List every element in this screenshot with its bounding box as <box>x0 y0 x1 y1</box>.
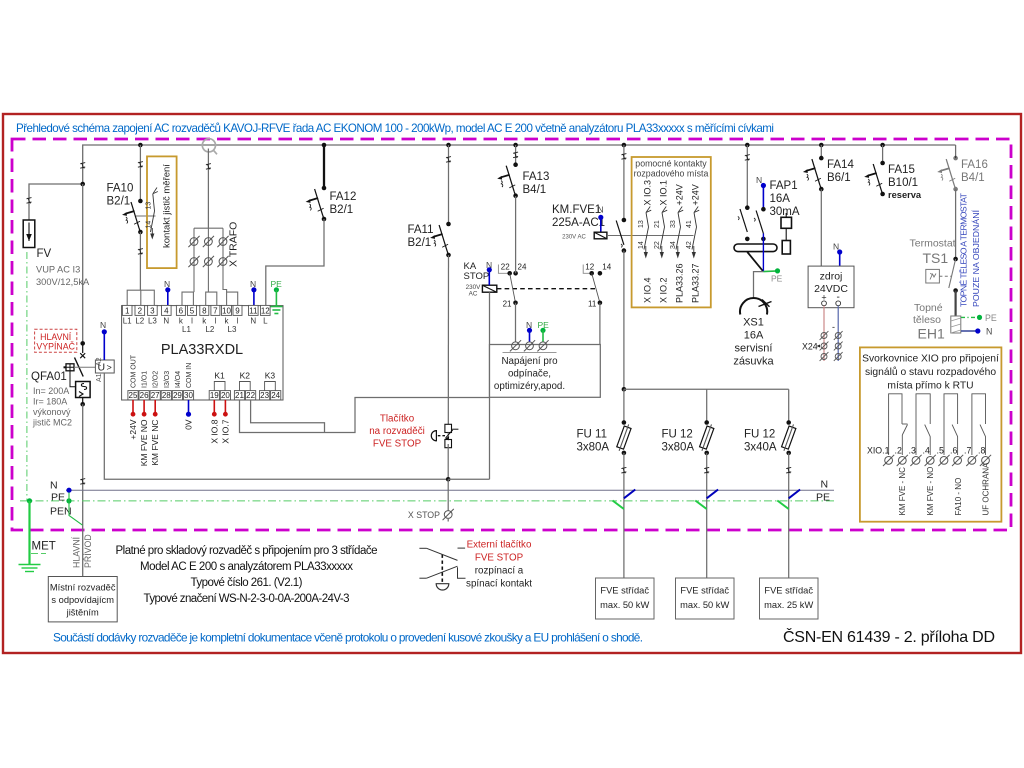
svg-text:KM FVE NC: KM FVE NC <box>150 420 160 466</box>
svg-text:In= 200A: In= 200A <box>33 386 69 396</box>
box Mistni rozvadec <box>48 577 117 622</box>
svg-text:N: N <box>598 205 604 215</box>
svg-text:N: N <box>821 479 829 491</box>
overvoltage release U> <box>95 357 114 382</box>
blue stub 30 <box>188 400 190 414</box>
wire main vertical lower part <box>82 404 84 576</box>
breaker FA14 <box>803 156 824 192</box>
CT terminals row 1 <box>188 236 199 247</box>
FU11 drop <box>617 389 631 578</box>
svg-text:servisní: servisní <box>735 343 773 355</box>
svg-text:13: 13 <box>146 202 153 210</box>
breaker FA10 <box>122 199 143 235</box>
svg-text:X IO.1: X IO.1 <box>659 180 669 206</box>
distribution bus <box>624 388 789 390</box>
svg-text:Svorkovnice XIO pro připojení: Svorkovnice XIO pro připojení <box>862 354 999 365</box>
svg-text:27: 27 <box>151 391 160 400</box>
svg-text:N: N <box>100 320 106 330</box>
XIO contact pair 4 (NO) <box>972 394 986 455</box>
svg-text:42: 42 <box>686 241 693 249</box>
main contact KM <box>616 218 626 253</box>
PE stub at socket <box>763 268 782 283</box>
svg-text:rozpínací a: rozpínací a <box>475 566 524 577</box>
svg-text:POUZE NA OBJEDNÁNÍ: POUZE NA OBJEDNÁNÍ <box>971 209 981 307</box>
svg-text:K1: K1 <box>214 371 225 381</box>
svg-text:PLA33RXDL: PLA33RXDL <box>161 342 243 358</box>
svg-text:QFA01: QFA01 <box>31 371 67 383</box>
svg-text:s odpovídajícm: s odpovídajícm <box>51 595 114 605</box>
svg-text:HLAVNÍ: HLAVNÍ <box>72 536 82 568</box>
svg-text:TOPNÉ TĚLESO A TERMOSTAT: TOPNÉ TĚLESO A TERMOSTAT <box>959 192 969 307</box>
mech dashed link KA <box>497 288 596 290</box>
svg-text:výkonový: výkonový <box>33 407 71 417</box>
red stubs 19 20 <box>214 400 225 414</box>
svg-text:jistič MC2: jistič MC2 <box>32 417 72 427</box>
N terminal 11 stub <box>250 279 257 305</box>
aux contact KA 22/24 <box>498 262 527 308</box>
wire main vertical <box>82 184 84 343</box>
push button on panel <box>431 424 458 447</box>
svg-text:FU 12: FU 12 <box>662 429 693 441</box>
svg-text:X TRAFO: X TRAFO <box>228 222 240 267</box>
svg-text:A2: A2 <box>96 357 103 366</box>
svg-text:PE: PE <box>51 492 65 504</box>
node FA12 bus tap <box>322 143 327 148</box>
svg-text:Platné pro skladový rozvaděč s: Platné pro skladový rozvaděč s připojení… <box>116 545 378 557</box>
outer red border <box>3 114 1021 653</box>
svg-text:N: N <box>986 327 992 337</box>
svg-text:Typové číslo 261. (V2.1): Typové číslo 261. (V2.1) <box>191 577 303 589</box>
relay coil KA <box>482 285 496 292</box>
CT line 3 <box>223 228 227 292</box>
breaker FA11 <box>430 222 451 258</box>
gold box pomocne kontakty <box>632 157 711 307</box>
svg-text:COM OUT: COM OUT <box>131 354 138 388</box>
bottom terminal squares <box>128 391 281 400</box>
bottom terminal rotated labels <box>131 354 194 388</box>
node FA15 bus tap <box>880 143 885 148</box>
bracket feed L1 L2 L3 <box>127 290 154 305</box>
svg-text:23: 23 <box>260 391 269 400</box>
svg-text:EH1: EH1 <box>918 326 945 342</box>
svg-text:max. 50 kW: max. 50 kW <box>600 600 649 610</box>
svg-text:jištěním: jištěním <box>66 608 99 618</box>
svg-text:B4/1: B4/1 <box>961 172 985 184</box>
wire FA14 upper <box>820 145 822 158</box>
svg-text:PE: PE <box>816 492 830 504</box>
svg-text:N: N <box>163 317 169 326</box>
top terminal numbers <box>125 306 270 315</box>
bottom terminal numbers <box>129 391 281 400</box>
XIO terminal labels <box>867 446 985 456</box>
N feed to U> <box>100 320 107 360</box>
svg-text:pomocné kontakty: pomocné kontakty <box>635 159 707 169</box>
PE bus green dash-dot <box>20 500 834 502</box>
svg-text:signálů o stavu rozpadového: signálů o stavu rozpadového <box>865 366 996 378</box>
gold box kontakt jistic mereni <box>147 156 177 268</box>
label HLAVNI VYPINAC box <box>35 329 77 352</box>
svg-text:FVE střídač: FVE střídač <box>600 586 649 596</box>
PE terminal stub + earth <box>270 279 282 314</box>
bracket CT pair 2 <box>206 292 217 305</box>
svg-text:I4/O4: I4/O4 <box>175 371 182 388</box>
svg-text:X IO.3: X IO.3 <box>643 180 653 206</box>
XIO rotated signal labels <box>898 462 991 516</box>
svg-text:3x40A: 3x40A <box>744 442 777 454</box>
wire KM aux common down <box>599 303 601 345</box>
svg-text:22: 22 <box>246 391 255 400</box>
svg-text:FAP1: FAP1 <box>770 180 798 192</box>
svg-text:34: 34 <box>670 241 677 249</box>
node distribution <box>622 387 627 392</box>
svg-text:-: - <box>832 322 835 332</box>
svg-text:FA16: FA16 <box>961 159 988 171</box>
svg-text:Přehledové schéma zapojení AC: Přehledové schéma zapojení AC rozvaděčů … <box>16 122 774 135</box>
inverter box 1 <box>596 578 655 619</box>
svg-text:FA14: FA14 <box>827 159 854 171</box>
svg-text:I2/O2: I2/O2 <box>153 371 160 388</box>
svg-text:21: 21 <box>235 391 244 400</box>
svg-text:14: 14 <box>602 262 611 271</box>
breaker FA16 <box>937 156 958 192</box>
RCD diagonal link <box>747 252 763 272</box>
breaker FA12 <box>306 186 327 222</box>
top terminal squares <box>122 305 270 315</box>
break mark above N bus <box>80 479 85 485</box>
svg-text:Typové značení WS-N-2-3-0-0A-2: Typové značení WS-N-2-3-0-0A-200A-24V-3 <box>144 593 350 605</box>
svg-text:B4/1: B4/1 <box>523 184 547 196</box>
svg-text:14: 14 <box>638 241 645 249</box>
wire FA11 down to stop button <box>447 255 449 425</box>
svg-text:0V: 0V <box>184 419 194 430</box>
svg-text:3x80A: 3x80A <box>577 442 610 454</box>
svg-text:PE: PE <box>985 313 997 323</box>
wire FA13 upper <box>515 145 517 165</box>
wire bus corner to FA16 <box>955 145 957 158</box>
dashed link TS1 <box>939 275 951 277</box>
svg-text:12: 12 <box>585 262 594 271</box>
wire FA14 down to zdroj <box>820 189 822 266</box>
N terminal 4 stub <box>164 279 170 305</box>
N stub EH1 <box>961 327 992 337</box>
grid circle symbol <box>202 139 215 152</box>
svg-text:I1/O1: I1/O1 <box>142 371 149 388</box>
svg-text:41: 41 <box>686 220 693 228</box>
svg-text:24: 24 <box>518 262 527 271</box>
wire N through RCD to PE node <box>762 239 764 272</box>
CT phase labels <box>182 325 237 334</box>
svg-text:B2/1: B2/1 <box>408 237 432 249</box>
svg-text:místa přímo k RTU: místa přímo k RTU <box>887 381 973 392</box>
svg-text:zásuvka: zásuvka <box>733 356 774 368</box>
svg-text:l: l <box>237 317 239 326</box>
wire from terminal 21 to stop circuit <box>240 398 490 433</box>
wire FA16 down <box>955 189 957 259</box>
breaker FA15 <box>864 161 885 197</box>
svg-text:FA10: FA10 <box>107 183 134 195</box>
wire FA13 down to KA aux <box>515 196 517 273</box>
svg-text:14: 14 <box>146 221 153 229</box>
RCD switch poles <box>738 205 766 241</box>
green dash-dot PE down-lead <box>26 252 28 501</box>
break mark main vertical <box>80 163 85 169</box>
MET earth <box>19 501 47 572</box>
PE stub EH1 <box>961 313 997 323</box>
CT line 2 <box>207 228 209 292</box>
break mark FV line <box>27 198 32 204</box>
svg-text:odpínače,: odpínače, <box>508 369 551 380</box>
wire FA10 aux drive <box>136 215 156 217</box>
svg-text:L1: L1 <box>123 317 132 326</box>
XIO screw terminals <box>883 455 991 466</box>
XIO contact pair 3 (NO) <box>944 394 958 455</box>
svg-text:Místní rozvaděč: Místní rozvaděč <box>50 583 116 593</box>
svg-text:B2/1: B2/1 <box>330 204 354 216</box>
svg-text:FA11: FA11 <box>408 224 434 236</box>
wire KM down to distribution <box>623 251 625 390</box>
svg-text:21: 21 <box>654 220 661 228</box>
wire button to node <box>447 444 449 479</box>
wire U> A1 down and right to stop-circuit <box>104 373 448 479</box>
svg-text:X IO.7: X IO.7 <box>220 419 230 443</box>
RCD toroid <box>734 244 777 252</box>
socket XS1 symbol <box>740 298 772 314</box>
wire FA11 upper <box>448 145 450 224</box>
svg-text:3: 3 <box>150 306 155 315</box>
svg-text:L2: L2 <box>135 317 144 326</box>
svg-text:B6/1: B6/1 <box>827 172 851 184</box>
svg-text:K3: K3 <box>265 371 276 381</box>
svg-text:l: l <box>215 317 217 326</box>
wire FA12 upper (thick) <box>323 145 325 188</box>
break mark FA10 <box>138 162 143 168</box>
switch-breaker QFA01 <box>64 341 96 407</box>
svg-text:L2: L2 <box>205 325 214 334</box>
wire from terminal 22 <box>251 400 325 433</box>
N feed KA <box>486 260 492 285</box>
RCD test resistor <box>781 213 792 254</box>
svg-text:reserva: reserva <box>888 190 922 200</box>
svg-text:L: L <box>263 317 268 326</box>
red output stubs 25 26 27 <box>133 400 155 414</box>
svg-text:FA12: FA12 <box>330 191 357 203</box>
svg-text:FVE střídač: FVE střídač <box>764 586 813 596</box>
svg-text:300V/12,5kA: 300V/12,5kA <box>36 277 90 287</box>
svg-text:PŘÍVOD: PŘÍVOD <box>83 534 93 568</box>
node N tap <box>66 488 71 493</box>
svg-text:8: 8 <box>202 306 207 315</box>
svg-text:L1: L1 <box>182 325 191 334</box>
svg-text:13: 13 <box>638 220 645 228</box>
bracket CT pair 3 <box>227 292 238 305</box>
svg-text:XS1: XS1 <box>743 317 764 329</box>
svg-text:+24V: +24V <box>691 184 701 205</box>
N taps blue slashes <box>624 490 800 499</box>
wire main bus <box>83 145 956 184</box>
svg-text:B10/1: B10/1 <box>888 177 918 189</box>
svg-text:VYPÍNAČ: VYPÍNAČ <box>36 342 75 352</box>
node FA14 bus tap <box>819 143 824 148</box>
svg-text:N: N <box>50 480 58 492</box>
svg-text:L3: L3 <box>148 317 157 326</box>
svg-text:N: N <box>756 175 762 185</box>
node FA13 bus tap <box>513 143 518 148</box>
svg-text:FA15: FA15 <box>888 164 915 176</box>
wire FA10 upper <box>139 145 141 201</box>
bracket to CT lines <box>194 227 223 229</box>
svg-text:max. 50 kW: max. 50 kW <box>680 600 729 610</box>
thermostat box TS1 <box>926 269 940 283</box>
node stop circuit <box>446 477 451 482</box>
svg-text:FU 12: FU 12 <box>744 429 775 441</box>
svg-text:na rozvaděči: na rozvaděči <box>369 426 425 437</box>
svg-text:21: 21 <box>503 299 512 308</box>
svg-text:A1: A1 <box>96 373 103 382</box>
svg-text:20: 20 <box>221 391 230 400</box>
svg-text:3x80A: 3x80A <box>662 442 695 454</box>
svg-text:L3: L3 <box>228 325 237 334</box>
svg-text:STOP: STOP <box>464 271 490 282</box>
K1 K2 K3 labels + brackets <box>214 371 275 381</box>
svg-text:22: 22 <box>654 241 661 249</box>
XIO contact pair 1 (NC) <box>889 394 908 455</box>
node FA11 bus tap <box>446 143 451 148</box>
surge arrester FV <box>23 220 35 248</box>
svg-text:25: 25 <box>129 391 138 400</box>
FU12b drop <box>782 389 796 578</box>
svg-text:max. 25 kW: max. 25 kW <box>764 600 813 610</box>
terminal X STOP <box>443 509 454 520</box>
box zdroj 24VDC <box>808 266 854 308</box>
svg-text:PLA33.27: PLA33.27 <box>691 263 701 303</box>
N bus <box>66 489 834 491</box>
svg-text:16A: 16A <box>770 193 791 205</box>
contact TS1 <box>949 257 958 293</box>
svg-text:Součástí dodávky rozvaděče je: Součástí dodávky rozvaděče je kompletní … <box>53 631 643 645</box>
svg-text:spínací kontakt: spínací kontakt <box>466 579 532 590</box>
svg-text:Externí tlačítko: Externí tlačítko <box>467 540 532 551</box>
svg-text:225A-AC1: 225A-AC1 <box>552 217 605 229</box>
aux contact col 41/42 (+24V/PLA33.27) <box>686 184 701 303</box>
svg-text:.2: .2 <box>895 446 902 456</box>
svg-text:7: 7 <box>213 306 218 315</box>
svg-text:.4: .4 <box>923 446 930 456</box>
aux contact KM 12/14 <box>583 262 612 308</box>
break mark FAP1 <box>745 155 750 161</box>
contactor coil KM <box>594 232 607 239</box>
wire X STOP drop <box>447 479 449 511</box>
svg-text:Topné: Topné <box>914 302 943 314</box>
CT terminals row 2 <box>188 256 199 267</box>
svg-text:24VDC: 24VDC <box>814 283 848 295</box>
svg-text:Napájení pro: Napájení pro <box>501 356 558 367</box>
svg-text:UF OCHRANA: UF OCHRANA <box>982 462 991 516</box>
N wire KM coil <box>600 217 602 232</box>
svg-text:FVE STOP: FVE STOP <box>475 553 524 564</box>
break mark FA11 <box>446 157 451 163</box>
XIO contact pair 2 (NO) <box>916 394 930 455</box>
FU12 drop <box>700 389 714 578</box>
svg-text:X IO.2: X IO.2 <box>659 277 669 303</box>
svg-text:30: 30 <box>184 391 193 400</box>
svg-text:B2/1: B2/1 <box>107 196 131 208</box>
svg-text:5: 5 <box>190 306 195 315</box>
PE taps green slashes <box>613 501 789 510</box>
svg-text:24: 24 <box>271 391 280 400</box>
svg-text:33: 33 <box>670 220 677 228</box>
drive line KM <box>607 235 694 237</box>
svg-text:FVE STOP: FVE STOP <box>373 439 422 450</box>
svg-text:KM FVE - NC: KM FVE - NC <box>898 467 907 516</box>
wire FA10 lower <box>139 232 141 290</box>
wire node to KA vertical <box>448 478 489 480</box>
svg-text:230V AC: 230V AC <box>562 235 586 241</box>
svg-text:KM FVE - NO: KM FVE - NO <box>926 467 935 516</box>
node KM bus tap <box>622 143 627 148</box>
svg-text:19: 19 <box>210 391 219 400</box>
aux contact col 21/22 (X IO.1/X IO.2) <box>654 180 669 303</box>
svg-text:l: l <box>191 317 193 326</box>
node FAP1 bus tap <box>745 143 750 148</box>
break mark FA13 <box>513 152 518 158</box>
top terminal pin labels <box>123 317 268 326</box>
inverter box 3 <box>760 578 819 619</box>
svg-text:.7: .7 <box>964 446 971 456</box>
svg-text:Termostat: Termostat <box>910 238 956 250</box>
CT line 1 <box>193 228 195 292</box>
svg-text:FU 11: FU 11 <box>577 429 607 441</box>
svg-text:PE: PE <box>771 274 783 284</box>
svg-text:K2: K2 <box>240 371 251 381</box>
wire FA15 upper <box>882 145 884 163</box>
external stop button <box>419 548 465 590</box>
svg-text:kontakt jistič měření: kontakt jistič měření <box>162 164 173 248</box>
svg-text:1: 1 <box>125 306 130 315</box>
svg-text:rozpadového místa: rozpadového místa <box>634 169 709 179</box>
wire FAP1 L <box>746 145 748 208</box>
svg-text:X STOP: X STOP <box>408 510 440 520</box>
svg-text:12: 12 <box>261 306 270 315</box>
N dot KM coil <box>598 215 603 220</box>
svg-text:.6: .6 <box>950 446 957 456</box>
svg-text:16A: 16A <box>744 330 764 342</box>
svg-text:26: 26 <box>140 391 149 400</box>
inverter box 2 <box>676 578 735 619</box>
wire FV branch <box>29 184 83 220</box>
svg-text:VUP AC I3: VUP AC I3 <box>36 265 80 275</box>
svg-text:30mA: 30mA <box>770 206 800 218</box>
svg-text:Tlačítko: Tlačítko <box>380 414 415 425</box>
svg-text:TS1: TS1 <box>923 250 949 266</box>
wire down to socket <box>754 272 764 299</box>
svg-text:PEN: PEN <box>50 506 72 518</box>
svg-text:9: 9 <box>235 306 240 315</box>
svg-text:MET: MET <box>32 541 56 553</box>
svg-text:Model AC E 200 s analyzátorem: Model AC E 200 s analyzátorem PLA33xxxxx <box>140 561 353 573</box>
aux contact col 33/34 (+24V/PLA33.26) <box>670 184 685 303</box>
svg-text:optimizéry,apod.: optimizéry,apod. <box>494 381 565 392</box>
svg-text:10: 10 <box>222 306 231 315</box>
svg-text:těleso: těleso <box>913 314 941 326</box>
svg-text:X IO.4: X IO.4 <box>643 277 653 303</box>
svg-text:XIO.1: XIO.1 <box>867 446 890 456</box>
svg-text:ČSN-EN 61439 - 2. příloha DD: ČSN-EN 61439 - 2. příloha DD <box>783 627 995 646</box>
wire KA coil down <box>489 292 491 479</box>
svg-text:11: 11 <box>249 306 258 315</box>
break mark KM <box>621 154 626 160</box>
wire KA common down to Napajeni <box>515 303 517 342</box>
svg-text:I3/O3: I3/O3 <box>164 371 171 388</box>
